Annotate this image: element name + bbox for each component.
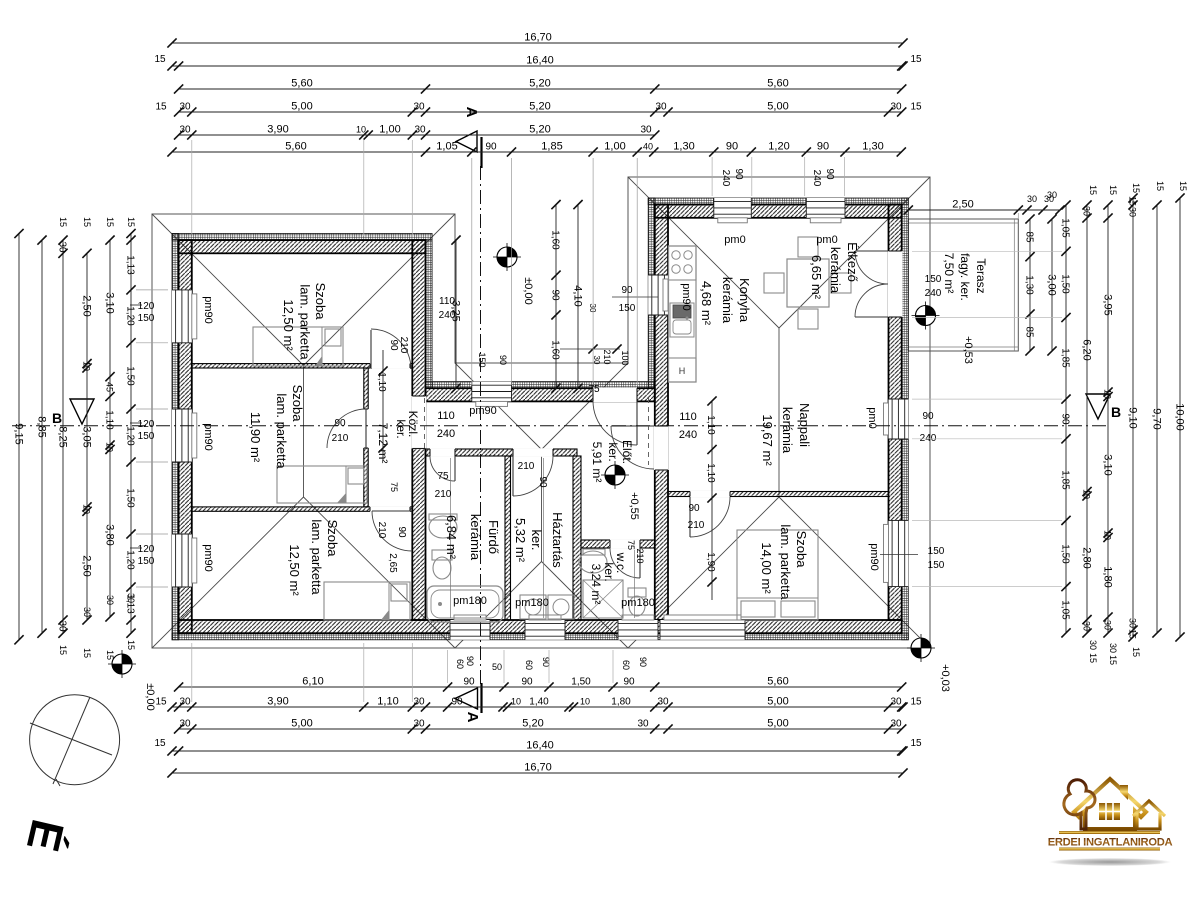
- window sill konyha top 1: [718, 218, 748, 223]
- elevation marker courtyard +-0,00: [497, 247, 517, 267]
- svg-text:15: 15: [154, 738, 166, 749]
- top wall of right wing: [655, 205, 902, 218]
- svg-text:±0,00: ±0,00: [522, 277, 534, 304]
- window sill haztartas bottom: [529, 615, 561, 620]
- svg-text:90: 90: [638, 657, 648, 667]
- svg-text:15: 15: [1088, 653, 1098, 663]
- svg-text:1,50: 1,50: [125, 366, 136, 386]
- svg-text:90: 90: [824, 168, 835, 180]
- elevation marker bottom right +0,03: [911, 638, 931, 658]
- window courtyard middle wall (90): [472, 382, 512, 402]
- svg-text:90: 90: [688, 503, 700, 514]
- west wall of left wing: [179, 240, 192, 633]
- elevation marker eloter +0,55: [605, 465, 625, 485]
- svg-text:5,60: 5,60: [285, 141, 306, 153]
- svg-text:kerámia: kerámia: [780, 407, 795, 454]
- dim chain top row 16,40: [167, 55, 907, 71]
- svg-text:Szoba: Szoba: [290, 385, 305, 423]
- svg-text:150: 150: [138, 313, 155, 324]
- svg-text:B: B: [1111, 404, 1121, 420]
- terrace double door leaf upper: [855, 250, 888, 252]
- room label eloter: [590, 440, 634, 482]
- svg-text:ERDEI INGATLANIRODA: ERDEI INGATLANIRODA: [1048, 837, 1173, 849]
- dim line stub 1,10: [382, 350, 384, 460]
- svg-text:15: 15: [1128, 629, 1138, 639]
- svg-text:90: 90: [726, 141, 738, 153]
- svg-text:75: 75: [626, 540, 636, 550]
- svg-text:Háztartás: Háztartás: [550, 512, 565, 568]
- svg-text:150: 150: [928, 560, 945, 571]
- svg-text:110: 110: [439, 296, 455, 307]
- svg-text:1,20: 1,20: [125, 306, 136, 326]
- svg-text:Szoba: Szoba: [325, 520, 340, 558]
- dim chain left room depths: [81, 249, 93, 625]
- window axis line furdo: [450, 458, 452, 618]
- svg-text:90: 90: [521, 677, 533, 688]
- svg-text:150: 150: [477, 352, 487, 367]
- dim chain left 8,85: [36, 236, 48, 638]
- svg-text:3,00: 3,00: [1046, 274, 1058, 295]
- svg-text:1,20: 1,20: [125, 426, 136, 446]
- chair south: [798, 309, 818, 329]
- svg-text:10: 10: [356, 125, 366, 135]
- svg-text:15: 15: [82, 217, 92, 227]
- partition closet strip wall: [364, 368, 368, 507]
- svg-text:15: 15: [1128, 196, 1138, 206]
- svg-text:5,20: 5,20: [529, 78, 550, 90]
- window sill szoba bottom west: [192, 538, 197, 583]
- dim chain bottom row 16,70: [167, 762, 907, 778]
- svg-text:pm90: pm90: [469, 405, 497, 417]
- svg-text:1,05: 1,05: [1060, 600, 1071, 620]
- svg-text:16,40: 16,40: [526, 55, 554, 67]
- svg-text:85: 85: [1024, 326, 1035, 338]
- svg-text:15: 15: [1108, 185, 1118, 195]
- window sill szoba east: [884, 524, 889, 582]
- svg-text:8,85: 8,85: [36, 416, 48, 437]
- svg-text:Étkező: Étkező: [845, 242, 860, 282]
- east wall of right wing: [889, 205, 902, 620]
- svg-text:30: 30: [657, 697, 669, 708]
- dim chain left window positions: [125, 229, 136, 638]
- door opening szoba 11,90 (closet wall): [363, 409, 369, 448]
- window axis line wc: [634, 550, 636, 618]
- svg-text:1,00: 1,00: [604, 141, 625, 153]
- svg-text:15: 15: [105, 650, 115, 660]
- logo erdei ingatlaniroda: [1048, 779, 1173, 866]
- svg-text:90: 90: [537, 476, 548, 488]
- svg-text:1,85: 1,85: [1060, 348, 1071, 368]
- svg-text:30: 30: [179, 697, 191, 708]
- bed in szoba 12,50 bottom: [324, 582, 410, 620]
- dim chain right 9,10: [1127, 193, 1139, 641]
- svg-text:14,00 m²: 14,00 m²: [759, 542, 774, 594]
- door opening nappali from hall: [654, 426, 669, 470]
- window sill szoba top west: [192, 294, 197, 339]
- partition south of corridor: [426, 449, 578, 456]
- svg-text:30: 30: [637, 719, 649, 730]
- window wc bottom (pm180): [618, 620, 658, 640]
- chair east: [831, 273, 851, 293]
- svg-text:90: 90: [541, 657, 551, 667]
- svg-text:5,60: 5,60: [291, 78, 312, 90]
- chair west: [764, 273, 784, 293]
- svg-text:1,50: 1,50: [125, 488, 136, 508]
- roof hip right wing SE: [779, 497, 930, 648]
- svg-text:30: 30: [414, 125, 426, 136]
- svg-text:ker.: ker.: [529, 530, 544, 551]
- section line A-A vertical: [480, 166, 482, 688]
- svg-text:1,85: 1,85: [1060, 470, 1071, 490]
- svg-text:5,20: 5,20: [529, 101, 550, 113]
- svg-text:210: 210: [602, 349, 612, 364]
- svg-text:15: 15: [155, 697, 167, 708]
- dim chain bottom row 5,00 5,20 5,00: [174, 718, 906, 734]
- middle section top wall: [426, 388, 655, 401]
- section marker B left: [70, 399, 94, 424]
- room label szoba 12,50 bottom: [287, 519, 340, 596]
- svg-text:15: 15: [1131, 183, 1141, 193]
- window sill nappali east: [884, 403, 889, 435]
- extension lines bottom chains: [191, 643, 193, 702]
- svg-text:Fürdő: Fürdő: [486, 520, 501, 554]
- svg-text:210: 210: [435, 489, 452, 500]
- dim chain top row 5,60 5,20 5,60: [174, 78, 906, 94]
- window szoba south bottom: [660, 620, 745, 640]
- svg-text:15: 15: [126, 640, 136, 650]
- svg-text:lam. parketta: lam. parketta: [309, 519, 324, 595]
- svg-text:1,10: 1,10: [377, 696, 398, 708]
- svg-text:30: 30: [105, 595, 115, 605]
- svg-text:2,50: 2,50: [81, 555, 93, 576]
- svg-text:12,50 m²: 12,50 m²: [287, 544, 302, 596]
- svg-text:120: 120: [138, 419, 155, 430]
- svg-text:1,10: 1,10: [705, 415, 716, 435]
- bed in szoba 11,90: [277, 466, 367, 503]
- svg-text:Konyha: Konyha: [737, 278, 752, 323]
- svg-text:6,84 m²: 6,84 m²: [444, 515, 459, 560]
- door opening szoba 12,50 bottom (in partition): [370, 506, 410, 512]
- svg-text:16,70: 16,70: [524, 32, 552, 44]
- svg-text:240: 240: [437, 428, 455, 440]
- roof hip left wing NW: [152, 214, 304, 366]
- window konyha west (90/150): [648, 275, 668, 315]
- room label furdo: [444, 514, 501, 561]
- svg-text:5,00: 5,00: [767, 101, 788, 113]
- svg-text:B: B: [52, 410, 62, 426]
- door leaf szoba 11,90: [365, 409, 367, 448]
- window szoba 12,50 bottom west (120/150): [172, 534, 192, 587]
- svg-text:1,50: 1,50: [1060, 544, 1071, 564]
- elevation marker terrace +0,53: [916, 306, 936, 326]
- svg-text:1,60: 1,60: [550, 230, 561, 250]
- svg-text:10: 10: [511, 697, 521, 707]
- svg-text:1,13: 1,13: [125, 255, 136, 275]
- dim chain bottom row 16,40: [167, 740, 907, 756]
- svg-text:240: 240: [679, 429, 697, 441]
- svg-text:75: 75: [389, 482, 399, 492]
- svg-text:3,24 m²: 3,24 m²: [589, 564, 603, 605]
- svg-text:Szoba: Szoba: [794, 531, 809, 569]
- dim chain terrace 85 1,30 85: [1024, 214, 1035, 355]
- svg-text:1,50: 1,50: [571, 677, 591, 688]
- svg-text:240: 240: [720, 170, 731, 187]
- svg-text:15: 15: [126, 217, 136, 227]
- svg-text:+0,03: +0,03: [939, 664, 951, 692]
- elevation marker bottom left +-0,00: [112, 654, 132, 674]
- section marker A top: [456, 131, 477, 152]
- terrace slab outline: [908, 219, 1018, 351]
- window konyha top 1 (90/240): [714, 198, 752, 218]
- dim chain left 8,25: [57, 236, 69, 638]
- svg-text:5,00: 5,00: [291, 718, 312, 730]
- svg-text:2,50: 2,50: [952, 199, 973, 211]
- svg-text:lam. parketta: lam. parketta: [778, 524, 793, 600]
- svg-text:1,90: 1,90: [705, 552, 716, 572]
- dim chain courtyard 4,10: [572, 200, 584, 393]
- svg-text:90: 90: [465, 656, 475, 666]
- roof ridge left wing: [303, 366, 305, 498]
- svg-text:90: 90: [623, 677, 635, 688]
- extension lines right wall windows: [912, 250, 1062, 252]
- svg-text:1,20: 1,20: [125, 550, 136, 570]
- door leaf hall to nappali: [611, 425, 654, 427]
- insulation band east wall: [902, 198, 909, 640]
- extension line entrance left edge: [592, 158, 594, 385]
- extension lines top left wing: [191, 140, 193, 236]
- svg-text:9,15: 9,15: [13, 423, 25, 444]
- svg-text:1,85: 1,85: [541, 141, 562, 153]
- terrace door opening: [888, 251, 903, 317]
- room label wc: [589, 552, 628, 605]
- dim chain right 3,95 3,10 1,80: [1102, 200, 1114, 637]
- svg-text:30: 30: [1128, 207, 1138, 217]
- window nappali east (90/240): [889, 399, 909, 439]
- room label terasz: [942, 253, 988, 301]
- window etkezo top (90/240): [806, 198, 845, 218]
- dim chain top row 5,00 5,20 5,00: [155, 101, 922, 117]
- svg-text:10: 10: [1082, 489, 1092, 499]
- svg-text:240: 240: [811, 170, 822, 187]
- top wall of left wing: [179, 240, 426, 253]
- insulation band left wing top: [172, 234, 432, 241]
- svg-text:15: 15: [910, 697, 922, 708]
- svg-text:15: 15: [910, 738, 922, 749]
- svg-text:kerámia: kerámia: [720, 277, 735, 324]
- svg-text:90: 90: [1060, 413, 1071, 425]
- svg-text:5,00: 5,00: [291, 101, 312, 113]
- roof hip middle SE: [542, 562, 629, 649]
- window szoba 12,50 west (120/150): [172, 290, 192, 343]
- svg-text:90: 90: [922, 411, 934, 422]
- svg-text:60: 60: [455, 659, 465, 669]
- svg-text:90: 90: [396, 526, 407, 538]
- partition wc north: [581, 540, 655, 548]
- svg-text:9,10: 9,10: [1127, 407, 1139, 428]
- svg-text:5,00: 5,00: [767, 718, 788, 730]
- svg-text:16,40: 16,40: [526, 740, 554, 752]
- extension line courtyard window left edge: [471, 158, 473, 385]
- svg-text:30: 30: [890, 719, 902, 730]
- svg-text:1,00: 1,00: [379, 124, 400, 136]
- svg-text:6,10: 6,10: [302, 676, 323, 688]
- svg-text:lam. parketta: lam. parketta: [298, 284, 313, 360]
- svg-text:240: 240: [925, 288, 942, 299]
- svg-text:90: 90: [485, 142, 497, 153]
- svg-text:30: 30: [57, 620, 68, 632]
- svg-text:90: 90: [733, 168, 744, 180]
- svg-text:150: 150: [925, 274, 942, 285]
- svg-text:110: 110: [437, 410, 455, 422]
- svg-text:1,50: 1,50: [1060, 274, 1071, 294]
- svg-text:ker.: ker.: [394, 419, 408, 438]
- svg-text:30: 30: [640, 125, 652, 136]
- dim chain top row openings: [167, 141, 906, 157]
- washing machine 2: [548, 595, 574, 619]
- svg-text:75: 75: [437, 471, 449, 482]
- svg-text:1,05: 1,05: [1060, 218, 1071, 238]
- svg-text:A: A: [464, 712, 481, 723]
- entrance door opening: [593, 387, 637, 402]
- svg-text:30: 30: [1088, 640, 1098, 650]
- svg-text:120: 120: [138, 544, 155, 555]
- svg-text:210: 210: [332, 433, 349, 444]
- room label nappali: [760, 403, 812, 466]
- svg-text:90: 90: [498, 355, 508, 365]
- svg-text:5,20: 5,20: [522, 718, 543, 730]
- dim line nappali west 1,10 1,10 1,90: [711, 401, 713, 600]
- svg-text:5,00: 5,00: [767, 696, 788, 708]
- svg-text:90: 90: [817, 141, 829, 153]
- svg-text:5,60: 5,60: [767, 78, 788, 90]
- insulation band bottom wall: [172, 633, 908, 640]
- svg-text:60: 60: [621, 660, 631, 670]
- svg-text:6,65 m²: 6,65 m²: [809, 255, 824, 300]
- double bed in szoba 14,00: [737, 530, 818, 620]
- svg-text:10: 10: [82, 361, 92, 371]
- svg-text:Terasz: Terasz: [974, 258, 988, 293]
- roof ridge middle: [541, 450, 543, 562]
- svg-text:30: 30: [126, 593, 136, 603]
- door opening szoba 14,00: [690, 491, 730, 498]
- svg-text:30: 30: [413, 102, 425, 113]
- svg-text:150: 150: [138, 431, 155, 442]
- svg-text:3,10: 3,10: [1102, 454, 1114, 475]
- roof hip right wing NE: [779, 177, 930, 328]
- svg-text:30: 30: [890, 102, 902, 113]
- svg-text:2,65: 2,65: [387, 553, 398, 573]
- svg-text:30: 30: [1082, 621, 1092, 631]
- dim chain courtyard 3,25: [450, 236, 462, 393]
- svg-text:5,60: 5,60: [767, 676, 788, 688]
- toilet in wc: [628, 588, 646, 597]
- svg-text:60: 60: [524, 660, 534, 670]
- terrace double door leaf lower: [855, 316, 888, 318]
- svg-text:pm90: pm90: [202, 544, 214, 572]
- roof eave outline of house: [152, 177, 930, 648]
- svg-text:Nappali: Nappali: [797, 403, 812, 447]
- roof hip left wing SW: [152, 497, 304, 648]
- svg-text:15: 15: [82, 648, 92, 658]
- dim chain bottom row 6,10 5,60: [174, 676, 906, 692]
- svg-text:30: 30: [1128, 618, 1138, 628]
- svg-text:30: 30: [413, 719, 425, 730]
- svg-text:30: 30: [179, 719, 191, 730]
- svg-text:H: H: [679, 366, 686, 376]
- svg-text:pm90: pm90: [868, 543, 880, 571]
- svg-text:pm180: pm180: [515, 597, 549, 609]
- insulation band right wing west: [648, 198, 655, 388]
- svg-text:240: 240: [439, 310, 456, 321]
- svg-text:8,25: 8,25: [57, 426, 69, 447]
- roof hip right wing NW: [628, 177, 779, 328]
- roof hip middle SW: [455, 562, 542, 649]
- dining table: [787, 259, 829, 307]
- svg-text:kerámia: kerámia: [828, 247, 843, 294]
- door leaf entrance: [636, 401, 638, 445]
- svg-text:15: 15: [1108, 655, 1118, 665]
- door opening haztartas: [513, 448, 553, 457]
- svg-text:5,20: 5,20: [529, 124, 550, 136]
- window axis line haztartas: [543, 458, 545, 618]
- svg-text:11,90 m²: 11,90 m²: [248, 412, 263, 463]
- door leaf wc: [639, 548, 641, 578]
- svg-text:30: 30: [413, 697, 425, 708]
- svg-text:210: 210: [635, 548, 645, 563]
- partition bathroom east: [505, 456, 511, 620]
- svg-text:15: 15: [1088, 185, 1098, 195]
- svg-text:9,70: 9,70: [1151, 408, 1163, 429]
- east wall of left wing (courtyard side): [412, 240, 425, 620]
- section line B-B horizontal: [12, 425, 1106, 427]
- svg-text:10: 10: [105, 442, 115, 452]
- svg-text:12,50 m²: 12,50 m²: [281, 299, 296, 351]
- extension line courtyard window right edge: [511, 158, 513, 385]
- room label haztartas: [513, 512, 565, 568]
- hidden edge corridor west: [424, 398, 426, 452]
- door leaf haztartas: [512, 456, 514, 496]
- partition between szoba 11,90 and szoba 12,50: [192, 507, 412, 511]
- window sill courtyard: [476, 401, 508, 406]
- extension line entrance right edge: [636, 158, 638, 385]
- svg-text:30: 30: [179, 102, 191, 113]
- svg-text:150: 150: [138, 556, 155, 567]
- roof ridge right wing: [778, 328, 780, 497]
- window sill szoba south bottom: [664, 615, 741, 620]
- svg-text:3,80: 3,80: [104, 524, 116, 545]
- svg-text:45: 45: [105, 382, 115, 392]
- dim chain top row 16,70: [167, 32, 907, 48]
- door leaf szoba 14,00: [689, 497, 691, 537]
- svg-text:1,40: 1,40: [529, 697, 549, 708]
- svg-text:120: 120: [138, 301, 155, 312]
- svg-text:lam. parketta: lam. parketta: [274, 393, 289, 469]
- svg-text:10,00: 10,00: [1174, 403, 1186, 431]
- svg-text:30: 30: [1082, 206, 1092, 216]
- door opening bathroom: [430, 448, 455, 457]
- svg-text:3,90: 3,90: [267, 124, 288, 136]
- roof hip right wing SW: [628, 497, 779, 648]
- dim chain left 3,10 3,80: [104, 236, 116, 622]
- partition between szoba 12,50 and szoba 11,90: [192, 364, 412, 368]
- svg-text:30: 30: [588, 304, 597, 313]
- svg-text:10: 10: [580, 697, 590, 707]
- svg-text:30: 30: [1108, 643, 1118, 653]
- svg-text:pm0: pm0: [724, 234, 745, 246]
- svg-text:3,05: 3,05: [81, 426, 93, 447]
- partition nappali/szoba: [668, 492, 889, 497]
- room label szoba 11,90: [248, 385, 305, 470]
